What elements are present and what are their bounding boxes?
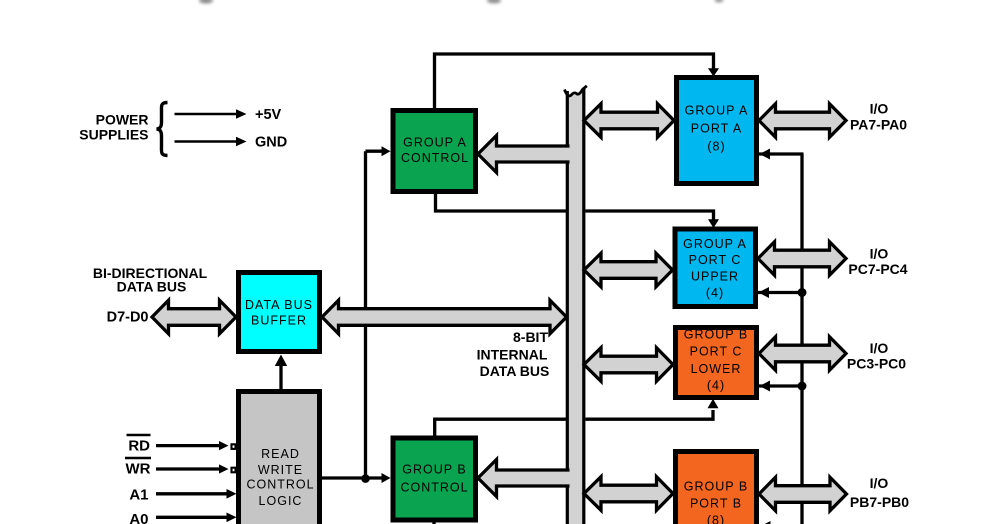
gray double arrow bus to port B — [584, 477, 673, 511]
svg-text:PORT A: PORT A — [691, 122, 742, 136]
svg-text:D7-D0: D7-D0 — [107, 310, 149, 326]
svg-text:RD: RD — [128, 438, 150, 455]
svg-text:(8): (8) — [707, 140, 725, 154]
svg-text:CONTROL: CONTROL — [246, 478, 314, 492]
svg-text:8-BIT: 8-BIT — [513, 329, 548, 345]
gray double arrow D7-D0 to data bus buffer — [152, 300, 236, 334]
wire right feedback vertical — [800, 154, 803, 524]
block GROUP A PORT C UPPER — [675, 229, 756, 307]
svg-text:A0: A0 — [129, 511, 148, 524]
gray double arrow port B to I/O — [759, 477, 847, 511]
svg-text:UPPER: UPPER — [691, 270, 739, 284]
svg-text:GND: GND — [255, 135, 287, 151]
svg-text:BUFFER: BUFFER — [251, 314, 307, 328]
block GROUP A PORT A — [677, 78, 757, 184]
svg-text:POWER: POWER — [96, 112, 149, 128]
svg-text:GROUP A: GROUP A — [403, 136, 467, 150]
wire RD into rwcl — [156, 444, 219, 447]
gray double arrow buffer to internal bus — [322, 300, 567, 334]
svg-text:GROUP A: GROUP A — [683, 237, 747, 251]
svg-text:I/O: I/O — [870, 340, 889, 356]
svg-text:PORT B: PORT B — [690, 497, 742, 511]
svg-text:GROUP B: GROUP B — [684, 328, 748, 342]
svg-text:(4): (4) — [706, 286, 724, 300]
gray double arrow port C upper to I/O — [758, 242, 846, 276]
block DATA BUS BUFFER — [239, 273, 320, 352]
cropped title descender 1 — [199, 0, 213, 4]
cropped title descender 2 — [487, 0, 501, 3]
wire A0 into rwcl — [156, 516, 227, 519]
block READ WRITE CONTROL LOGIC — [239, 392, 320, 524]
wire A1 into rwcl — [156, 492, 227, 495]
wire GND arrow — [175, 140, 237, 143]
wire WR into rwcl — [156, 467, 219, 470]
wire feedback into port C lower — [759, 384, 802, 387]
wire group B control top to port C lower bottom — [435, 410, 713, 436]
gray double arrow port A to I/O — [759, 104, 846, 138]
bus top squiggle — [565, 86, 587, 96]
wire feedback into port C upper — [758, 291, 802, 294]
svg-text:LOWER: LOWER — [691, 362, 742, 376]
svg-text:PA7-PA0: PA7-PA0 — [850, 117, 907, 133]
gray double arrow bus to port C lower — [584, 348, 673, 382]
wire from group A control up over to port A — [435, 54, 714, 108]
gray double arrow port C lower to I/O — [759, 337, 846, 371]
svg-text:I/O: I/O — [870, 246, 889, 262]
svg-text:INTERNAL: INTERNAL — [477, 347, 548, 363]
internal data bus bar — [566, 87, 586, 524]
svg-text:DATA BUS: DATA BUS — [480, 363, 550, 379]
svg-text:GROUP B: GROUP B — [402, 463, 466, 477]
svg-text:WRITE: WRITE — [258, 463, 303, 477]
svg-text:PORT C: PORT C — [689, 253, 742, 267]
svg-text:(8): (8) — [707, 514, 725, 524]
svg-text:PORT C: PORT C — [690, 345, 743, 359]
wire from group A control bottom to port C upper top — [436, 194, 714, 220]
svg-text:GROUP A: GROUP A — [685, 104, 749, 118]
svg-text:SUPPLIES: SUPPLIES — [79, 127, 148, 143]
wire rwcl to group B control — [322, 476, 382, 479]
svg-text:I/O: I/O — [870, 475, 889, 491]
junction dot port C lower feedback — [798, 382, 807, 391]
junction dot control node — [361, 474, 370, 483]
svg-text:READ: READ — [261, 447, 300, 461]
junction dot port C upper feedback — [798, 288, 807, 297]
svg-text:(4): (4) — [707, 379, 725, 393]
svg-text:I/O: I/O — [870, 101, 889, 117]
gray arrow bus to group B control — [478, 460, 572, 497]
wire feedback into port B (cut off) — [760, 521, 771, 524]
gray double arrow bus to port C upper — [584, 253, 673, 287]
block GROUP B PORT C LOWER — [676, 328, 757, 398]
svg-text:CONTROL: CONTROL — [400, 481, 468, 495]
svg-text:DATA BUS: DATA BUS — [117, 279, 187, 295]
gray arrow bus to group A control — [478, 136, 572, 173]
wire into group A control left — [366, 150, 383, 153]
gray double arrow bus to port A — [584, 104, 674, 138]
wire control node down left column — [364, 151, 367, 478]
wire group B control bottom stub — [432, 522, 435, 524]
block GROUP B PORT B — [676, 452, 757, 524]
svg-text:A1: A1 — [129, 487, 148, 504]
block GROUP A CONTROL — [393, 111, 476, 192]
svg-text:+5V: +5V — [255, 107, 282, 123]
svg-text:PC7-PC4: PC7-PC4 — [848, 261, 907, 277]
block GROUP B CONTROL — [393, 438, 476, 520]
svg-text:GROUP B: GROUP B — [684, 480, 748, 494]
svg-text:PB7-PB0: PB7-PB0 — [850, 494, 909, 510]
wire rwcl up to data bus buffer — [279, 364, 282, 389]
svg-text:LOGIC: LOGIC — [259, 494, 303, 508]
svg-text:CONTROL: CONTROL — [401, 151, 469, 165]
brace — [157, 103, 168, 156]
svg-text:WR: WR — [126, 461, 151, 478]
wire feedback into port A — [759, 152, 804, 155]
cropped title descender 3 — [715, 0, 724, 2]
svg-text:DATA BUS: DATA BUS — [245, 298, 313, 312]
svg-text:PC3-PC0: PC3-PC0 — [847, 356, 906, 372]
wire +5V arrow — [175, 113, 237, 116]
